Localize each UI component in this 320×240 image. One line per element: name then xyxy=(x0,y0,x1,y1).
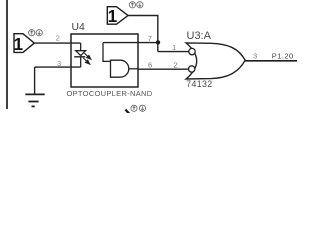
wire: U4 pin6 to U3 pin2 bubble xyxy=(138,68,188,70)
LED cathode bar xyxy=(74,56,85,58)
svg-text:2: 2 xyxy=(174,60,178,69)
IO direction circle down (bottom flag) xyxy=(139,105,145,111)
IO direction circle up (top flag) xyxy=(129,2,135,8)
IO direction circle up (bottom flag) xyxy=(131,105,137,111)
svg-text:P1.20: P1.20 xyxy=(272,52,294,61)
wire: ground net to U4 pin3 / LED cathode xyxy=(35,66,81,68)
wire: top flag right then down to junction xyxy=(128,16,158,52)
svg-text:3: 3 xyxy=(57,59,61,68)
sheet border frame line xyxy=(6,0,8,109)
svg-text:6: 6 xyxy=(148,60,152,69)
LED anode stem xyxy=(80,43,82,51)
svg-text:74132: 74132 xyxy=(186,79,212,89)
input bubble pin1 xyxy=(189,48,195,54)
ground xyxy=(25,67,44,106)
LED triangle xyxy=(76,51,86,56)
wire: junction to U3 pin1 bubble xyxy=(158,51,189,53)
svg-text:U3:A: U3:A xyxy=(187,30,212,42)
IO direction circle down (top flag) xyxy=(137,2,143,8)
U3:A gate body (negative-input NAND drawn as OR) xyxy=(186,43,245,79)
svg-text:1: 1 xyxy=(14,34,24,54)
output wire P1.20 xyxy=(245,60,297,62)
svg-text:1: 1 xyxy=(108,6,118,26)
svg-text:2: 2 xyxy=(56,33,60,42)
svg-text:7: 7 xyxy=(148,34,152,43)
svg-text:OPTOCOUPLER-NAND: OPTOCOUPLER-NAND xyxy=(67,89,153,98)
LED emission arrow 2 xyxy=(83,58,90,64)
junction dot xyxy=(156,40,160,44)
IO direction circle up (left flag) xyxy=(29,30,35,36)
LED cathode stem xyxy=(80,57,82,67)
IO direction circle down (left flag) xyxy=(36,30,42,36)
svg-text:1: 1 xyxy=(172,43,176,52)
inner feedback wire xyxy=(103,43,111,62)
input bubble pin2 xyxy=(189,66,195,72)
wire: U4 pin7 (through box edge to junction) xyxy=(103,42,158,44)
optocoupler U4 body xyxy=(71,34,138,87)
wire: left flag to U4 pin2 / LED anode xyxy=(34,42,80,44)
inner NAND output stub xyxy=(129,68,138,70)
port flag 1 (left) xyxy=(14,34,35,55)
inner NAND gate of U4 xyxy=(111,60,129,77)
partial bottom flag wedge xyxy=(125,110,129,114)
svg-text:3: 3 xyxy=(253,51,257,60)
port flag 1 (top) xyxy=(107,6,128,26)
svg-text:U4: U4 xyxy=(72,22,86,33)
LED emission arrow 1 xyxy=(84,53,91,59)
